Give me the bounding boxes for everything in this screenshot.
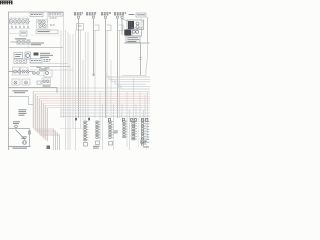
wire lamp bus C bbox=[11, 41, 31, 43]
relay K6 housing bbox=[22, 79, 30, 85]
label text bbox=[22, 138, 27, 139]
lamp socket node bbox=[11, 26, 13, 28]
terminal bbox=[136, 30, 139, 33]
note text bbox=[19, 115, 25, 116]
wire (staircase corner) bbox=[106, 73, 150, 77]
wire (staircase corner) bbox=[121, 85, 150, 89]
wire (corner of harness bundle) bbox=[39, 99, 150, 134]
wire bbox=[22, 24, 24, 27]
wire bbox=[63, 12, 65, 118]
lamp socket node bbox=[15, 26, 17, 28]
wire bbox=[9, 33, 21, 35]
wire bbox=[102, 104, 104, 150]
relay box outline bbox=[132, 28, 142, 36]
terminal bbox=[136, 22, 139, 25]
pin number glyph bbox=[146, 119, 148, 122]
lamp L15 bbox=[22, 70, 25, 73]
lamp L2 bbox=[13, 20, 17, 24]
connector node bbox=[15, 125, 18, 128]
wire bbox=[106, 30, 108, 118]
lamp L17 bbox=[33, 72, 36, 75]
pin label bbox=[147, 125, 150, 128]
label text bbox=[127, 37, 138, 38]
label text bbox=[143, 147, 149, 148]
wire bbox=[75, 30, 77, 150]
lamp L4 bbox=[21, 20, 25, 24]
switch SW3 connector bracket bbox=[106, 25, 111, 31]
wire bbox=[113, 104, 115, 150]
connector J2 bbox=[96, 121, 101, 138]
lamp L16 bbox=[26, 70, 29, 73]
relay K4 housing bbox=[44, 70, 52, 77]
wire (staircase corner) bbox=[109, 75, 150, 79]
wire bbox=[10, 17, 12, 19]
wire (staircase corner) bbox=[115, 80, 146, 84]
lamp L5 bbox=[25, 20, 29, 24]
relay K5 housing bbox=[12, 79, 20, 85]
wire (staircase corner) bbox=[112, 78, 150, 82]
lamp cluster housing bbox=[37, 19, 48, 28]
connector label bbox=[74, 12, 83, 15]
lamp L13 bbox=[14, 70, 17, 73]
wire bbox=[72, 34, 74, 128]
wire bbox=[85, 32, 87, 120]
label text bbox=[31, 43, 44, 44]
lamp L19 bbox=[14, 81, 17, 84]
lamp L1 bbox=[9, 20, 13, 24]
wire (ground bus) bbox=[9, 145, 31, 147]
pin label bbox=[147, 130, 150, 133]
wire bbox=[138, 118, 140, 147]
wire bbox=[10, 24, 12, 27]
relay K3 housing bbox=[21, 67, 29, 75]
wire bbox=[30, 34, 63, 36]
wire bbox=[9, 47, 64, 49]
switch S1 (blade) bbox=[16, 130, 26, 140]
wire bbox=[147, 17, 149, 43]
wire bbox=[144, 95, 146, 143]
wire (staircase corner) bbox=[118, 82, 150, 86]
wire bbox=[133, 78, 135, 118]
switch SW1 box bbox=[77, 24, 84, 31]
connector shell bbox=[84, 143, 88, 147]
label text bbox=[15, 54, 21, 55]
label box bbox=[20, 31, 27, 36]
label text bbox=[40, 55, 53, 56]
connector J1 bbox=[84, 121, 89, 141]
wire bbox=[22, 17, 24, 19]
wire bbox=[140, 44, 142, 76]
wire bbox=[29, 129, 31, 147]
connector pin bbox=[92, 16, 94, 18]
relay K2 housing bbox=[13, 67, 20, 75]
caption text bbox=[13, 148, 28, 149]
label text bbox=[93, 146, 100, 147]
lamp socket node bbox=[19, 26, 21, 28]
lamp L22 bbox=[46, 80, 49, 83]
wire bbox=[122, 75, 146, 77]
label text bbox=[14, 92, 25, 93]
pin number glyph bbox=[108, 119, 110, 122]
wire bbox=[9, 28, 30, 30]
splice node bbox=[93, 74, 95, 76]
wire bbox=[117, 19, 119, 119]
label text bbox=[140, 141, 147, 142]
wire (corner of harness bundle) bbox=[37, 96, 150, 132]
wire bbox=[37, 71, 44, 73]
wire bbox=[60, 115, 150, 117]
lamp L17b bbox=[37, 72, 40, 75]
wire (darker bus with corner) bbox=[9, 88, 58, 93]
wire bbox=[119, 30, 121, 118]
lamp L20 bbox=[25, 81, 28, 84]
lamp L7 bbox=[42, 20, 45, 23]
lamp socket node bbox=[27, 26, 29, 28]
lamp L8 bbox=[39, 24, 42, 27]
lamp L12 bbox=[26, 40, 29, 43]
label text bbox=[50, 24, 55, 27]
pin label bbox=[147, 123, 150, 126]
wire bbox=[47, 16, 49, 22]
wire bbox=[140, 17, 142, 20]
note text bbox=[19, 109, 27, 110]
label text (ground note) bbox=[13, 90, 29, 91]
connector pin bbox=[116, 16, 118, 18]
frame left border wire bbox=[8, 12, 10, 150]
wire from connector to body harness bbox=[78, 19, 80, 119]
wire bbox=[146, 118, 148, 150]
label text bbox=[40, 57, 49, 58]
wire bbox=[58, 87, 121, 89]
pin number glyph bbox=[134, 119, 136, 122]
wire (bundle lower corner) bbox=[34, 129, 54, 150]
label text bbox=[114, 131, 119, 132]
wire (curved right riser) bbox=[146, 43, 148, 76]
lamp L14 bbox=[18, 70, 21, 73]
connector label bbox=[86, 12, 96, 15]
small dark component bbox=[47, 146, 51, 150]
wire (bundle tail) bbox=[42, 136, 46, 138]
connector label bbox=[101, 12, 111, 15]
wire bbox=[67, 32, 69, 150]
wire (bundle lower corner) bbox=[36, 131, 56, 150]
label text bbox=[15, 56, 20, 57]
wire bbox=[99, 92, 101, 140]
label text bbox=[38, 31, 50, 32]
fuse block F1 outline bbox=[127, 20, 144, 30]
wire bbox=[93, 19, 95, 75]
label text bbox=[44, 59, 51, 60]
connector pin bbox=[77, 16, 79, 18]
motor M1 housing bbox=[25, 52, 31, 59]
connector shell bbox=[96, 141, 100, 145]
pin number bbox=[75, 118, 77, 121]
wire bbox=[18, 24, 20, 27]
motor M2 bbox=[23, 141, 27, 145]
fuse block dark body bbox=[128, 21, 134, 29]
wire bbox=[14, 17, 16, 19]
wire bbox=[28, 45, 30, 48]
pin label bbox=[147, 136, 150, 139]
wire bbox=[82, 60, 84, 120]
label text bbox=[45, 67, 50, 70]
pin label bbox=[147, 128, 150, 131]
label text bbox=[93, 148, 99, 149]
label text bbox=[15, 38, 26, 39]
wire bbox=[126, 92, 128, 147]
wire bbox=[30, 69, 73, 71]
relay contact bbox=[46, 72, 49, 75]
wire bbox=[139, 92, 141, 118]
label text bbox=[127, 39, 139, 40]
label text bbox=[129, 14, 135, 15]
motor M1 bbox=[26, 54, 30, 58]
pin label bbox=[147, 138, 150, 141]
label box bbox=[136, 13, 146, 17]
connector J3 bbox=[109, 121, 114, 138]
label text bbox=[114, 132, 118, 133]
wire bbox=[14, 24, 16, 27]
relay box K1 bbox=[14, 53, 23, 59]
lamp L18b bbox=[43, 68, 46, 71]
relay pilot box bbox=[14, 59, 27, 64]
wire bbox=[65, 30, 67, 150]
connector J4 bbox=[123, 121, 128, 138]
wire (corner of harness bundle) bbox=[35, 94, 150, 130]
label text bbox=[31, 14, 42, 15]
wire bbox=[135, 104, 137, 118]
wire (corner of harness bundle) bbox=[41, 101, 150, 136]
note text bbox=[19, 111, 27, 112]
pin label bbox=[78, 25, 82, 28]
junction box bbox=[37, 81, 41, 84]
indicator node bbox=[23, 60, 25, 62]
wire bbox=[121, 104, 123, 118]
connector pin bbox=[104, 16, 106, 18]
lamp L18 bbox=[40, 68, 43, 71]
label text bbox=[22, 136, 28, 137]
wire (bundle lower corner) bbox=[40, 135, 60, 150]
connector label (dark) bbox=[34, 53, 39, 56]
wire bbox=[110, 60, 112, 118]
lamp housing bbox=[10, 19, 19, 24]
inline connector bbox=[28, 131, 30, 134]
wire with corner bbox=[36, 30, 50, 32]
wire lamp bus A bbox=[10, 20, 30, 22]
pin label bbox=[147, 133, 150, 136]
label text bbox=[50, 17, 57, 20]
lamp L9 bbox=[43, 24, 46, 27]
wire bbox=[105, 19, 107, 119]
pin label bbox=[147, 141, 150, 144]
pin label bbox=[147, 120, 150, 123]
pin number bbox=[88, 118, 90, 121]
wire bbox=[147, 92, 149, 140]
label box: switch bank bbox=[36, 30, 58, 34]
indicator node bbox=[16, 60, 18, 62]
wire diagonal bbox=[122, 19, 127, 22]
wire bbox=[9, 128, 30, 130]
label text bbox=[37, 66, 41, 69]
wire bbox=[143, 110, 145, 118]
wire (bundle lower corner) bbox=[38, 133, 58, 150]
pin number glyph bbox=[131, 119, 133, 122]
wire bbox=[60, 112, 150, 114]
wire bbox=[30, 63, 68, 65]
wire bbox=[121, 19, 123, 36]
wire (bundle tail) bbox=[44, 138, 48, 140]
lamp housing bbox=[20, 19, 29, 24]
wire (corner of harness bundle) bbox=[43, 103, 150, 137]
wire bbox=[26, 24, 28, 27]
inline connector on riser bbox=[139, 58, 141, 60]
lamp L3 bbox=[17, 20, 21, 24]
wire bbox=[18, 17, 20, 19]
lamp L21 bbox=[43, 80, 46, 83]
relay K7 housing bbox=[42, 78, 51, 85]
lamp L10 bbox=[17, 40, 20, 43]
fuse list box bbox=[126, 36, 140, 43]
wire (corner of harness bundle) bbox=[47, 108, 150, 142]
connector shell bbox=[109, 142, 113, 146]
wire (corner of harness bundle) bbox=[33, 92, 150, 128]
label box: lamp group A bbox=[30, 13, 43, 17]
connector pin bbox=[121, 16, 123, 18]
wire bbox=[124, 42, 150, 44]
indicator node bbox=[19, 60, 21, 62]
label text bbox=[31, 44, 41, 45]
wire bbox=[129, 110, 131, 150]
wire bbox=[15, 128, 17, 129]
connector J5 bbox=[132, 120, 137, 140]
label text bbox=[137, 14, 145, 15]
lamp socket node bbox=[23, 26, 25, 28]
pin number glyph bbox=[141, 119, 143, 122]
wire bbox=[94, 30, 96, 118]
terminal bbox=[136, 26, 139, 29]
label text bbox=[21, 33, 26, 34]
lamp L6 bbox=[38, 20, 41, 23]
wire bbox=[30, 66, 70, 68]
wire bbox=[80, 30, 82, 128]
note text bbox=[19, 113, 27, 114]
lamp housing bbox=[17, 40, 31, 45]
wire bbox=[26, 17, 28, 19]
fuse element bbox=[141, 22, 143, 28]
switch SW2 connector bracket bbox=[94, 25, 99, 31]
switch SW4 connector bracket bbox=[118, 25, 123, 31]
relay dark body bbox=[124, 30, 131, 36]
label text bbox=[13, 123, 19, 124]
label text bbox=[44, 60, 50, 63]
label box bbox=[30, 59, 42, 63]
label box: lamp group B bbox=[48, 13, 63, 17]
wire bbox=[9, 16, 29, 18]
wire bbox=[60, 109, 150, 111]
label text bbox=[13, 121, 20, 122]
label text bbox=[127, 41, 136, 42]
label text bbox=[31, 60, 41, 61]
wire bbox=[87, 32, 89, 118]
label text bbox=[140, 142, 146, 143]
label text bbox=[49, 14, 61, 15]
wire bbox=[38, 75, 44, 77]
label text bbox=[43, 86, 51, 87]
label text bbox=[40, 53, 50, 54]
frame top border wire bbox=[9, 11, 64, 13]
lamp L11 bbox=[22, 40, 25, 43]
pin number glyph bbox=[122, 119, 124, 122]
terminal bbox=[132, 30, 135, 33]
diagram title (cut off at left edge): "...NG DIAGRAM" drawn as glyph blobs bbox=[0, 1, 13, 5]
wire bbox=[60, 128, 84, 130]
wire bbox=[69, 34, 71, 150]
wire bbox=[60, 30, 62, 118]
wire with corner bbox=[9, 97, 34, 105]
wire (corner of harness bundle) bbox=[45, 105, 150, 139]
connector label bbox=[114, 12, 126, 15]
wire bbox=[9, 71, 34, 73]
connector J6 bbox=[141, 120, 146, 145]
